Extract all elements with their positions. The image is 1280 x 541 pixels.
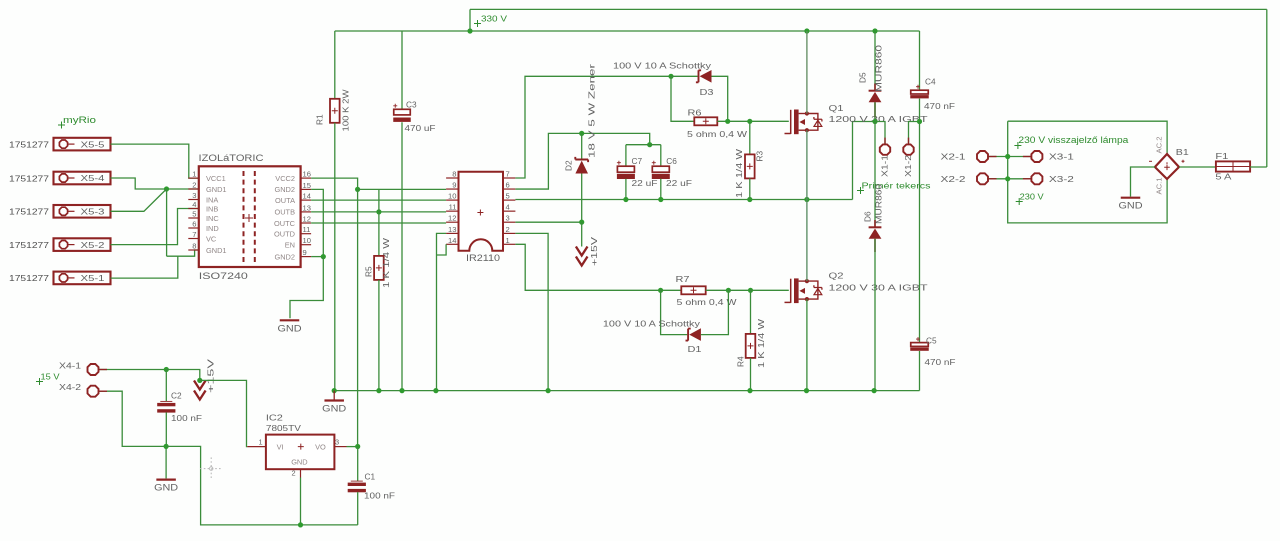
svg-text:GND1: GND1 (206, 185, 227, 194)
connector X1-2 (903, 144, 913, 154)
ground symbol GND rail (333, 391, 335, 400)
svg-text:AC.1: AC.1 (1155, 178, 1164, 195)
wire to D3 anode (671, 75, 698, 77)
svg-text:22 uF: 22 uF (666, 178, 692, 188)
svg-text:Q2: Q2 (829, 271, 844, 281)
svg-text:14: 14 (303, 192, 311, 201)
transistor Q2 IGBT (790, 279, 792, 303)
wire phase to X1-1 (875, 122, 885, 144)
wire C1 bottom lead (357, 492, 359, 525)
resistor R5 (374, 256, 384, 280)
svg-text:C5: C5 (926, 336, 937, 346)
connector X5-5 (54, 138, 111, 151)
wire D5 anode to phase (874, 102, 876, 121)
svg-text:470 nF: 470 nF (924, 101, 955, 111)
wire X5-5 to ISO pin1 (111, 144, 199, 178)
junction R4 top (748, 288, 753, 293)
wire IR2110 pin7 HO up to D3 node (515, 76, 671, 178)
junction C2 top (164, 367, 169, 372)
svg-text:GND: GND (154, 483, 179, 493)
wire R1 bottom to GND rail (334, 123, 336, 391)
junction R3 bottom (747, 197, 752, 202)
svg-text:GND1: GND1 (206, 246, 227, 255)
svg-text:7: 7 (506, 170, 510, 179)
resistor R1 (330, 99, 340, 123)
wire to Q2 gate (751, 289, 789, 291)
label origin cross 330V (474, 20, 481, 27)
svg-text:X5-4: X5-4 (81, 174, 106, 183)
svg-text:GND: GND (1119, 201, 1144, 211)
svg-text:1 K 1/4 W: 1 K 1/4 W (756, 319, 766, 368)
wire GND1 node down (166, 189, 168, 256)
wire +5V to IR2110 pin9 (358, 188, 447, 190)
wire C2 top lead (165, 370, 167, 402)
wire B1 minus to ground (1131, 167, 1155, 197)
svg-text:IZOLáTORIC: IZOLáTORIC (199, 152, 264, 163)
svg-text:D5: D5 (858, 72, 868, 83)
wire IR2110 pin5 VS phase net (515, 199, 852, 201)
bridge rectifier B1 (1155, 154, 1179, 179)
svg-text:X4-1: X4-1 (59, 362, 82, 371)
svg-text:X2-2: X2-2 (941, 175, 967, 184)
wire R3 bottom to VS net (749, 178, 751, 199)
svg-text:16: 16 (303, 170, 311, 179)
pin lead X1-1 (884, 138, 886, 144)
wire IR2110 pin1 LO to Q2 gate row (515, 244, 660, 290)
svg-text:9: 9 (452, 181, 456, 190)
wire R4 bottom to GND rail (750, 358, 752, 391)
svg-text:100 K 2W: 100 K 2W (341, 89, 351, 131)
connector X2-1 (977, 151, 988, 162)
junction D3 left node (668, 74, 673, 79)
junction +15V supply (197, 378, 202, 383)
wire C7 top lead (625, 145, 627, 167)
wire R4 top lead (750, 290, 752, 334)
svg-text:R6: R6 (688, 108, 702, 118)
wire right side down to fuse (1266, 9, 1268, 167)
svg-text:ISO7240: ISO7240 (199, 271, 248, 281)
wire 7805 GND down (300, 478, 302, 525)
label origin cross lampa (1014, 142, 1021, 149)
svg-text:6: 6 (506, 181, 510, 190)
wire B1 plus to F1 (1179, 166, 1216, 168)
svg-text:R3: R3 (755, 151, 765, 162)
svg-text:1 K 1/4 W: 1 K 1/4 W (734, 149, 744, 198)
resistor R4 (746, 334, 756, 358)
svg-text:100 nF: 100 nF (171, 413, 202, 423)
svg-text:EN: EN (285, 241, 295, 250)
wire rail to C4 (919, 31, 921, 90)
wire C4 bottom to phase node (919, 99, 921, 122)
svg-text:OUTA: OUTA (275, 196, 295, 205)
wire Q2 source to GND rail (806, 299, 808, 391)
svg-text:VO: VO (315, 442, 326, 451)
svg-text:100 V 10 A Schottky: 100 V 10 A Schottky (613, 61, 712, 71)
svg-text:18 V 5 W Zener: 18 V 5 W Zener (587, 64, 597, 158)
wire IR2110 pin14 join pin13 column (437, 244, 447, 255)
IC ISO7240 body (199, 166, 301, 267)
wire GND2 to ground (290, 257, 323, 319)
svg-text:330 V: 330 V (481, 14, 507, 24)
wire ISO pin12 OUTC to IR2110 pin12 (311, 222, 446, 224)
wire to R4 top (728, 289, 750, 291)
svg-text:INC: INC (206, 214, 219, 223)
svg-text:D2: D2 (564, 160, 574, 171)
connector X5-2 (54, 238, 111, 251)
svg-text:1751277: 1751277 (9, 207, 49, 217)
junction D5 column at rail (872, 28, 877, 33)
junction D5 phase node (872, 119, 877, 124)
wire IR2110 pin13 VSS to GND rail (437, 233, 447, 390)
wire R3 top lead (749, 121, 751, 154)
pin lead X3-2 (1023, 178, 1031, 180)
svg-text:1751277: 1751277 (9, 139, 49, 149)
capacitor C5 (916, 337, 920, 341)
svg-text:X5-1: X5-1 (81, 274, 106, 283)
capacitor C7 (617, 161, 621, 165)
svg-text:230 V visszajelző lámpa: 230 V visszajelző lámpa (1018, 135, 1128, 145)
connector X2-2 (977, 173, 988, 184)
svg-text:X3-1: X3-1 (1049, 153, 1075, 162)
svg-text:MUR860: MUR860 (874, 44, 884, 92)
junction C7 bottom (623, 197, 628, 202)
wire ISO pin16 VCC2 (311, 178, 358, 189)
svg-text:VI: VI (277, 442, 284, 451)
fuse F1 (1216, 161, 1250, 171)
junction R3 top (747, 119, 752, 124)
junction phase node (804, 197, 809, 202)
svg-text:5: 5 (506, 192, 510, 201)
svg-text:+15V: +15V (206, 358, 216, 393)
svg-text:X5-5: X5-5 (81, 140, 106, 149)
svg-text:R5: R5 (364, 266, 374, 277)
junction lamp left top (1005, 154, 1010, 159)
wire C6 top lead (660, 145, 662, 167)
ground GND lamp block (1121, 197, 1141, 199)
svg-text:1: 1 (192, 170, 196, 179)
wire to bottom rail (166, 446, 358, 525)
svg-text:1: 1 (259, 438, 263, 447)
svg-text:INA: INA (206, 195, 218, 204)
transistor Q1 IGBT (790, 110, 792, 134)
junction GND1 node (164, 186, 169, 191)
svg-text:C4: C4 (925, 77, 936, 87)
connector X5-4 (54, 172, 111, 185)
svg-text:3: 3 (335, 438, 339, 447)
wire GND rail (334, 390, 919, 392)
svg-text:1751277: 1751277 (9, 240, 49, 250)
svg-text:2: 2 (506, 225, 510, 234)
zener diode D2 18V 5W (575, 157, 588, 162)
junction bottom rail 7805 GND (298, 522, 303, 527)
svg-text:15 V: 15 V (41, 372, 60, 382)
svg-text:X1-2: X1-2 (903, 155, 913, 177)
svg-text:470 nF: 470 nF (925, 357, 956, 367)
wire R5 bottom to GND rail (378, 280, 380, 391)
junction GND rail IR2110 COM (546, 388, 551, 393)
wire C4 node to X1-2 (909, 122, 920, 144)
svg-text:5 ohm 0,4 W: 5 ohm 0,4 W (687, 129, 747, 139)
wire rail to D5 cathode (874, 31, 876, 91)
wire D1 cathode up to R7 right (701, 290, 729, 334)
svg-text:13: 13 (448, 225, 456, 234)
wire IR2110 pin6 VB to bootstrap node (515, 133, 649, 189)
wire cap bracket top (626, 144, 661, 146)
svg-text:Q1: Q1 (829, 103, 844, 113)
junction GND rail C3 (399, 388, 404, 393)
svg-text:GND2: GND2 (274, 252, 295, 261)
svg-text:10: 10 (448, 192, 456, 201)
junction D1-R7 right (726, 288, 731, 293)
junction D2 anode +15V (579, 220, 584, 225)
svg-text:VC: VC (206, 234, 217, 243)
svg-text:3: 3 (192, 191, 196, 200)
junction C4 X1-2 node (917, 119, 922, 124)
pin lead D6 anode (874, 239, 876, 252)
wire C1 top lead (357, 447, 359, 482)
svg-text:1751277: 1751277 (9, 173, 49, 183)
svg-text:2: 2 (292, 469, 296, 478)
wire to R7 left (661, 289, 682, 291)
svg-text:X5-3: X5-3 (81, 208, 106, 217)
svg-text:100 nF: 100 nF (364, 491, 395, 501)
junction R5 column row11 (376, 209, 381, 214)
svg-text:230 V: 230 V (1020, 192, 1044, 202)
capacitor C3 (393, 104, 397, 108)
junction +5V node (355, 187, 360, 192)
junction GND rail left end (332, 388, 337, 393)
connector X5-1 (54, 272, 111, 285)
capacitor C4 (916, 85, 920, 89)
svg-text:11: 11 (449, 203, 457, 212)
connector X1-1 (880, 144, 890, 154)
junction Q1 drain column at rail (804, 28, 809, 33)
svg-text:6: 6 (192, 220, 196, 229)
svg-text:INB: INB (206, 204, 218, 213)
wire C7 bottom lead (625, 179, 627, 200)
wire D3 left node to R6 left (671, 76, 694, 121)
capacitor C2 (160, 400, 172, 402)
diode D6 MUR860 (869, 226, 882, 228)
junction R7-D1 left (658, 288, 663, 293)
svg-text:470 uF: 470 uF (405, 123, 436, 133)
+15V supply symbol near X4 (194, 381, 206, 390)
ground GND main rail (324, 399, 344, 401)
svg-text:7: 7 (192, 230, 196, 239)
wire X5-1 up to GND1 bracket (111, 256, 178, 278)
svg-text:GND2: GND2 (274, 185, 295, 194)
resistor R3 (745, 154, 755, 178)
pin lead X2-2 (989, 178, 997, 180)
svg-text:C6: C6 (666, 156, 677, 166)
svg-text:9: 9 (303, 248, 307, 257)
svg-text:MUR860: MUR860 (874, 184, 884, 224)
ISO7240 right pins 16-9 (301, 177, 312, 179)
ground GND under ISO7240 (280, 319, 300, 321)
svg-text:GND: GND (322, 404, 347, 414)
capacitor C1 (351, 480, 363, 482)
junction lamp left bottom (1005, 176, 1010, 181)
pin lead D5 anode (874, 102, 876, 117)
wire phase up to D5 node (853, 122, 876, 200)
junction C6 bottom (658, 197, 663, 202)
svg-text:Primér tekercs: Primér tekercs (862, 181, 931, 191)
wire X5-3 diagonal to GND1 node (111, 189, 167, 211)
wire X5-4 to ISO pin2 (111, 178, 199, 189)
wire down to D1 anode (661, 290, 688, 334)
svg-text:VCC2: VCC2 (275, 174, 295, 183)
wire D3 cathode to R6 right node (712, 76, 728, 121)
wire 330V label stub (469, 9, 471, 31)
svg-text:IC2: IC2 (266, 413, 283, 423)
svg-text:R7: R7 (676, 274, 690, 284)
wire D6 anode to GND rail (874, 239, 876, 391)
svg-text:4: 4 (192, 200, 196, 209)
wire F1 to right rail (1250, 166, 1267, 168)
label origin cross 230V (1016, 198, 1023, 205)
junction C2 bottom GND node (164, 444, 169, 449)
wire C3 bottom to GND rail (401, 122, 403, 390)
wire rail to C3 top (401, 31, 403, 109)
pin lead X2-1 (989, 156, 997, 158)
wire D2 cathode lead (581, 133, 583, 159)
pin lead D5 cathode (874, 84, 876, 91)
wire Q1 source to Q2 drain (806, 130, 808, 281)
connector X4-2 (88, 386, 99, 397)
wire X5-2 to ISO pin4 (111, 209, 199, 245)
IR2110 left pins 8-14 (446, 177, 458, 179)
wire phase down to D6 cathode (874, 122, 876, 228)
svg-text:IND: IND (206, 224, 219, 233)
svg-text:5 A: 5 A (1215, 172, 1232, 182)
svg-text:X4-2: X4-2 (59, 383, 82, 392)
ISO7240 left pins 1-8 (188, 177, 199, 179)
svg-text:+15V: +15V (589, 236, 599, 266)
svg-text:13: 13 (303, 203, 311, 212)
svg-text:8: 8 (192, 242, 196, 251)
svg-text:X3-2: X3-2 (1049, 175, 1075, 184)
wire rail to Q1 drain (806, 31, 808, 114)
schottky diode D1 (686, 329, 691, 341)
connector X5-3 (54, 205, 111, 218)
svg-text:2: 2 (192, 181, 196, 190)
svg-text:VCC1: VCC1 (206, 174, 226, 183)
svg-text:C2: C2 (171, 391, 182, 401)
svg-text:C7: C7 (632, 156, 643, 166)
connector X3-2 (1031, 173, 1042, 184)
svg-text:14: 14 (448, 236, 456, 245)
label origin cross myRio (58, 122, 65, 129)
wire X4-2 down to C2 bottom node (99, 391, 166, 446)
wire ISO pin13 OUTB to IR2110 pin11 (311, 211, 446, 213)
wire +15V to 7805 VI (200, 380, 248, 446)
svg-text:12: 12 (303, 215, 311, 224)
svg-text:R4: R4 (736, 356, 746, 367)
wire +5V down to 7805 VO (357, 189, 359, 446)
svg-text:B1: B1 (1176, 147, 1189, 157)
svg-text:F1: F1 (1215, 151, 1228, 161)
wire to +15V arrow (581, 222, 583, 246)
junction 330V stub (467, 28, 472, 33)
svg-text:11: 11 (303, 225, 311, 234)
junction D2 cathode (579, 131, 584, 136)
wire ISO pin9 GND2 (311, 256, 323, 258)
svg-text:D6: D6 (863, 211, 873, 222)
svg-text:4: 4 (506, 203, 510, 212)
wire down to C5 (919, 122, 921, 343)
wire ISO pin14 OUTA to IR2110 pin10 (311, 199, 446, 201)
junction 7805 VO C1 (355, 444, 360, 449)
svg-text:GND: GND (278, 323, 303, 333)
wire lamp block rectangle (1008, 121, 1167, 223)
wire R5 column upper (378, 189, 380, 256)
wire GND stub under C2 (165, 446, 167, 478)
junction D3-R6 right (725, 119, 730, 124)
svg-text:5 ohm 0,4 W: 5 ohm 0,4 W (677, 297, 737, 307)
schottky diode D3 (696, 70, 701, 82)
wire IR2110 pin3 VCC to +15V node (515, 221, 581, 223)
junction GND rail Q2 source (804, 388, 809, 393)
resistor R7 (681, 286, 705, 294)
svg-text:22 uF: 22 uF (632, 178, 658, 188)
svg-text:8: 8 (452, 170, 456, 179)
wire ISO pin15 GND2 down (311, 189, 323, 256)
wire D2 anode down to +15V node (581, 174, 583, 223)
svg-text:GND: GND (291, 458, 307, 467)
wire C6 bottom lead (660, 179, 662, 200)
wire IR2110 pin2 COM to GND rail (515, 233, 548, 390)
svg-text:C3: C3 (406, 100, 417, 110)
connector X3-1 (1031, 151, 1042, 162)
svg-text:X2-1: X2-1 (941, 153, 967, 162)
ISO7240 isolation dashed lines (243, 171, 245, 262)
+15V supply symbol near IR2110 (576, 247, 588, 256)
junction GND rail D6 (872, 388, 877, 393)
svg-text:R1: R1 (315, 114, 325, 125)
IR2110 right pins 7-1 (503, 177, 515, 179)
wire C5 bottom to GND rail (919, 351, 921, 391)
pin lead X1-2 (908, 138, 910, 144)
svg-text:15: 15 (303, 181, 311, 190)
svg-text:OUTC: OUTC (274, 219, 296, 228)
svg-text:OUTD: OUTD (274, 230, 295, 239)
svg-text:1751277: 1751277 (9, 273, 49, 283)
svg-text:myRio: myRio (63, 115, 96, 125)
svg-text:AC.2: AC.2 (1155, 137, 1164, 154)
connector X4-1 (88, 364, 99, 375)
IC IR2110 body (459, 172, 504, 251)
junction GND2 node (321, 254, 326, 259)
wire rail to R1 top (334, 31, 336, 99)
junction GND rail R4 (747, 388, 752, 393)
svg-text:7805TV: 7805TV (266, 423, 301, 433)
svg-text:1: 1 (506, 236, 510, 245)
svg-text:X1-1: X1-1 (880, 155, 890, 177)
label origin cross Primer (857, 187, 864, 194)
wire R6 to Q1 gate (717, 120, 789, 122)
svg-text:10: 10 (303, 236, 311, 245)
svg-text:IR2110: IR2110 (466, 253, 500, 263)
wire X2-1 to X3-1 (989, 156, 1031, 158)
wire 330V top rail (470, 8, 1267, 10)
svg-text:5: 5 (192, 210, 196, 219)
pin lead X3-1 (1023, 156, 1031, 158)
svg-text:X5-2: X5-2 (81, 241, 106, 250)
junction C7 C6 top (647, 142, 652, 147)
resistor R6 (694, 117, 717, 125)
svg-text:C1: C1 (365, 472, 376, 482)
wire to +15V node (166, 370, 200, 381)
